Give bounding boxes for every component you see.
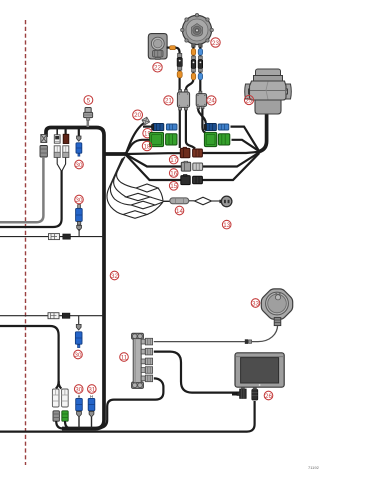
connector row 18 green: left big xyxy=(150,132,164,146)
connector: bottom green xyxy=(62,411,68,421)
svg-text:21: 21 xyxy=(165,98,172,105)
wire: gray battery lead exiting left xyxy=(0,157,43,222)
label 16 xyxy=(169,169,178,178)
wire: 16-right to RJ xyxy=(202,153,259,167)
diamond D5 xyxy=(195,197,212,205)
wire: item5 lead xyxy=(87,116,90,127)
label 24 xyxy=(207,96,216,105)
wire: left column drop 3 stem xyxy=(64,129,66,135)
label 31 xyxy=(88,385,97,394)
connector: drop3 maroon xyxy=(63,134,69,143)
wire: thick lead y326 curving down to terminal group xyxy=(0,326,59,383)
wire: trunk T-stub to left junction xyxy=(104,152,127,156)
svg-text:71192: 71192 xyxy=(308,465,320,470)
display right-angle plug xyxy=(232,387,246,398)
svg-text:14: 14 xyxy=(176,208,183,215)
connector: bottom gray xyxy=(53,411,59,421)
terminal: drop1 spade xyxy=(41,135,47,143)
label 11 xyxy=(120,353,129,362)
wire: 15-right to RJ xyxy=(202,153,259,180)
label 13 xyxy=(222,220,231,229)
horn 22 body xyxy=(148,34,167,60)
connector row 17 maroon: right xyxy=(193,149,203,157)
label 23 xyxy=(211,38,220,47)
svg-text:23: 23 xyxy=(212,40,219,47)
Y-connector 24 xyxy=(196,91,206,108)
wire: LJ to clip 20 xyxy=(126,123,146,154)
wire: thin lead y315.5 xyxy=(0,315,104,317)
svg-text:32: 32 xyxy=(111,273,118,280)
label 33 xyxy=(251,299,260,308)
node: left junction xyxy=(124,152,128,156)
fuse 30-III hanging below wire xyxy=(75,316,82,348)
connector row 19 blue: left dark xyxy=(152,123,164,130)
wire: 21 tail2 down to 17-right xyxy=(186,110,195,149)
label 15 xyxy=(169,182,178,191)
connector: drop2 receptacle xyxy=(54,135,60,143)
wire: fork to two terminals xyxy=(56,381,62,389)
wire: gray/green hooks into bottom run xyxy=(56,421,63,429)
terminal: drop4 arrow xyxy=(77,136,81,141)
datum dashed line xyxy=(25,20,27,465)
label 25 xyxy=(244,95,253,104)
wire: D5 to 13 xyxy=(212,200,221,202)
label 32 xyxy=(110,271,119,280)
connector row 16 gray: right xyxy=(193,163,203,170)
connector row 19 blue: left light xyxy=(166,124,177,130)
diamond D4 xyxy=(123,211,147,219)
wire: 14 to D5 xyxy=(189,200,195,202)
control knob 33 xyxy=(261,289,292,326)
label 30-IV xyxy=(74,385,83,394)
svg-text:5: 5 xyxy=(87,97,91,104)
wire: main harness trunk 32 (top bar + vertical trunk + bottom run) xyxy=(46,128,104,429)
connector row 19 blue: right light xyxy=(218,124,229,130)
wire: 11 top terminal to 33 (thin) xyxy=(154,341,245,343)
wire: drops 2+3 merge and exit left xyxy=(57,158,61,172)
node: right junction xyxy=(257,150,261,154)
label 30-III xyxy=(74,350,83,359)
svg-text:25: 25 xyxy=(246,97,253,104)
wire: 23 right lead to 24 xyxy=(199,47,201,91)
wire loop diamonds from LJ xyxy=(117,157,136,189)
label 5 xyxy=(84,96,93,105)
connector row 15 black: left xyxy=(181,175,190,185)
svg-text:15: 15 xyxy=(170,183,177,190)
svg-text:16: 16 xyxy=(170,170,177,177)
svg-text:18: 18 xyxy=(144,143,151,150)
wire: display long lead along bottom xyxy=(0,401,255,432)
label 17 xyxy=(169,155,178,164)
label 20 xyxy=(133,110,143,120)
fuse 30-II blue above wire xyxy=(76,205,83,236)
wire: 24 tail1 to 19-right xyxy=(198,108,206,124)
display 26 xyxy=(235,353,284,387)
connector row 18 green: left small xyxy=(166,134,177,145)
label 21 xyxy=(164,96,173,105)
svg-text:30: 30 xyxy=(76,162,83,169)
terminal: bottom white pair xyxy=(52,389,68,407)
wire: left column drop 4 stem xyxy=(78,129,80,136)
wire: 11 bottom terminal down to trunk bottom xyxy=(101,378,163,428)
fuse 31 xyxy=(88,395,95,428)
svg-text:22: 22 xyxy=(154,65,161,72)
wire: 19-right to RJ xyxy=(231,127,260,151)
svg-text:30: 30 xyxy=(75,352,82,359)
wire: LJ to 18-left xyxy=(126,140,150,154)
fuse 30-I blue xyxy=(76,143,82,156)
diamond D2 xyxy=(126,193,150,200)
diamond D1 xyxy=(136,184,158,192)
label 14 xyxy=(175,206,184,215)
connector: drop1 gray block xyxy=(40,146,47,158)
svg-text:20: 20 xyxy=(134,112,141,119)
connector row 19 blue: right dark xyxy=(204,123,216,130)
wire: left column drop 2 stem xyxy=(56,129,58,135)
terminal block 11 xyxy=(132,333,144,388)
connector row 15 black: right xyxy=(193,176,203,184)
connector 5 xyxy=(84,108,93,121)
label 26 xyxy=(264,391,273,400)
connector 13 round xyxy=(219,196,232,207)
display straight plug xyxy=(252,388,258,400)
main connector 25 xyxy=(245,69,292,114)
trim motor 23 body xyxy=(181,14,214,48)
wire: 23 left lead to 21 xyxy=(186,47,194,90)
wire: 17-right to RJ xyxy=(202,152,259,153)
connector row 16 gray: left xyxy=(181,161,190,171)
svg-text:30: 30 xyxy=(76,197,83,204)
terminal: drop2 fork xyxy=(54,146,60,158)
svg-text:24: 24 xyxy=(208,98,215,105)
terminal: drop3 fork xyxy=(63,146,69,158)
wire: LJ to 15-left xyxy=(126,155,182,180)
wire: RJ collector up to item 25 xyxy=(259,114,267,152)
wire: 24 tail2 to 18-right xyxy=(202,108,205,133)
fuse 30-IV xyxy=(76,395,83,428)
connector row 18 green: right big xyxy=(204,132,216,146)
terminal block 11 right terminals xyxy=(141,338,152,381)
wire: thin lead y237 xyxy=(0,236,104,238)
svg-text:13: 13 xyxy=(223,222,230,229)
svg-text:30: 30 xyxy=(75,386,82,393)
svg-text:31: 31 xyxy=(88,386,95,393)
wire: 18-right to RJ xyxy=(232,140,259,151)
label 18 xyxy=(142,141,151,150)
connector: inline pair on y315.5 xyxy=(48,313,70,319)
connector: inline pair on y237 xyxy=(49,234,71,240)
wire: LJ to 16-left xyxy=(126,155,182,167)
label 19 xyxy=(143,129,152,138)
label 30-I xyxy=(75,160,84,169)
connector row 17 maroon: left xyxy=(180,147,190,158)
wire: LJ to 17-left xyxy=(126,152,181,155)
svg-text:26: 26 xyxy=(265,393,272,400)
svg-text:17: 17 xyxy=(170,157,177,164)
wire: clip to 19-left xyxy=(143,125,153,127)
Y-connector 21 xyxy=(177,90,189,110)
wire: converge to 14 xyxy=(163,200,170,202)
connector row 18 green: right small xyxy=(218,134,229,145)
svg-text:33: 33 xyxy=(252,300,259,307)
wire: 21 tail1 down xyxy=(179,110,181,149)
wire: 11 second terminal to display plug xyxy=(154,352,240,393)
connector 14 xyxy=(170,198,189,204)
clip 20 xyxy=(142,117,150,125)
label 30-II xyxy=(75,195,84,204)
svg-text:11: 11 xyxy=(121,354,128,361)
diamond D3 xyxy=(131,201,155,209)
connector: inline on 33 lead xyxy=(245,339,248,344)
wire: 22 to 21 with sleeves xyxy=(167,46,171,48)
label 22 xyxy=(153,63,162,72)
